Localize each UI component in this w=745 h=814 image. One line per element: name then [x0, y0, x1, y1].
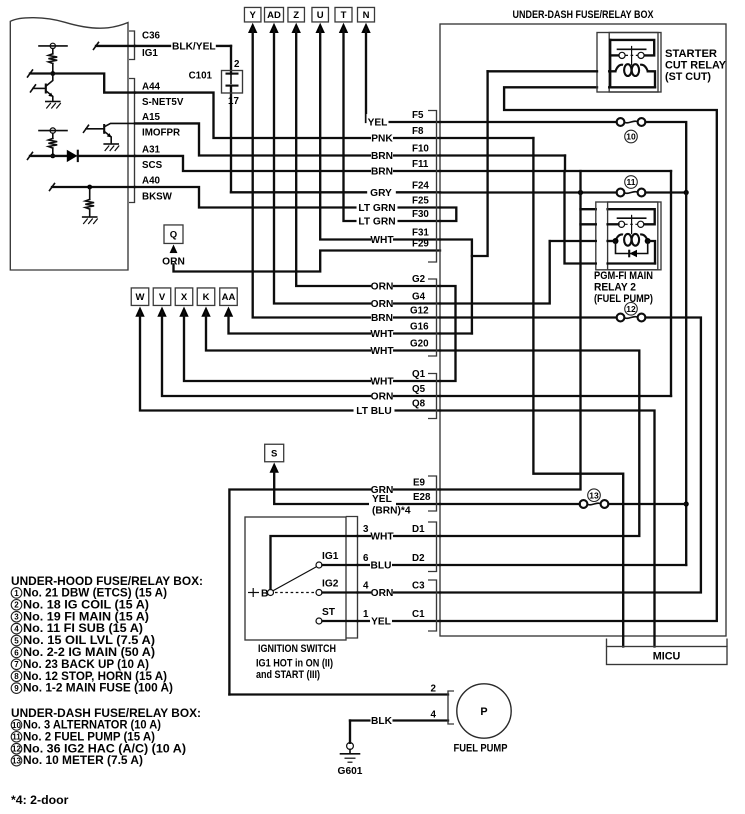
dashed line B-IG2 — [275, 592, 315, 594]
svg-text:IMOFPR: IMOFPR — [142, 128, 180, 139]
svg-text:ORN: ORN — [371, 392, 394, 403]
wire AD to ORN G4 row — [274, 29, 440, 304]
svg-text:4: 4 — [363, 581, 369, 592]
svg-text:BRN: BRN — [371, 313, 393, 324]
relay2 movable contact bar — [618, 217, 646, 219]
wire K to WHT G20 row — [206, 313, 440, 351]
svg-text:*4: 2-door: *4: 2-door — [11, 793, 69, 807]
wire F31 drop to G16 and ST-CUT coil branch — [440, 240, 472, 334]
svg-text:2: 2 — [14, 601, 19, 610]
terminal IG2 — [316, 590, 322, 596]
arrow into W — [135, 307, 144, 317]
wire Y to BRN G12 row — [253, 29, 440, 318]
wire V to ORN Q5 row — [162, 313, 440, 397]
fuel pump circle — [457, 684, 511, 738]
ignition switch connector bracket — [346, 517, 358, 639]
svg-text:E28: E28 — [413, 492, 431, 503]
wire G2 to G16/Q1 tie — [440, 286, 456, 381]
ST CUT coil-left wire out to F31 branch — [488, 70, 597, 72]
svg-text:12: 12 — [12, 745, 21, 754]
wire fuel pump pin 2 feed — [229, 693, 448, 695]
wire F10/F11 drop to relay2 area — [565, 171, 596, 264]
connector bracket G group — [428, 279, 437, 356]
legend item 9 — [11, 683, 22, 694]
svg-text:8: 8 — [14, 672, 19, 681]
connector box W — [131, 288, 149, 306]
legend item 7 — [11, 659, 22, 670]
legend item 6 — [11, 647, 22, 658]
node junction SCS net — [50, 154, 55, 159]
wire fuse 13 output to node — [609, 503, 687, 505]
svg-text:ORN: ORN — [162, 257, 185, 268]
svg-text:T: T — [341, 10, 347, 21]
svg-text:SCS: SCS — [142, 160, 163, 171]
svg-text:Q: Q — [170, 230, 177, 241]
ECM internal supply rail 2 — [39, 130, 67, 132]
wire G20 to Q5 tie and D1 drop — [440, 351, 639, 537]
wire D2 row inside box — [440, 564, 686, 566]
fuse 13 (No.10 METER) — [580, 500, 588, 508]
wire GRY F24 row — [231, 191, 366, 193]
svg-text:13: 13 — [12, 757, 21, 766]
svg-text:G601: G601 — [338, 766, 363, 777]
wire T to LT GRN F30 row — [344, 29, 441, 221]
wire C101 vertical to GRY row — [230, 46, 232, 74]
svg-text:G4: G4 — [412, 292, 426, 303]
svg-text:13: 13 — [589, 490, 599, 500]
svg-text:BKSW: BKSW — [142, 192, 173, 203]
wire F10 step to F11 row — [564, 156, 566, 172]
arrow into X — [179, 307, 188, 317]
relay2 coil left wire to staircase — [550, 240, 596, 242]
svg-text:F31: F31 — [412, 228, 429, 239]
svg-text:G2: G2 — [412, 274, 426, 285]
node dot GRY/relay feed — [578, 190, 583, 195]
svg-text:WHT: WHT — [370, 532, 394, 543]
svg-text:Q8: Q8 — [412, 399, 426, 410]
ST CUT movable contact bar — [618, 48, 646, 50]
resistor R-a (pull-up) — [52, 49, 54, 54]
wire F11 net drop to Q5 row — [670, 171, 672, 396]
wire S to YEL E28 row — [274, 469, 440, 504]
connector box K — [197, 288, 215, 306]
svg-text:ORN: ORN — [371, 588, 394, 599]
svg-text:No. 10 METER (7.5 A): No. 10 METER (7.5 A) — [23, 753, 143, 767]
ST CUT contact dashed actuator — [625, 54, 638, 56]
svg-text:(BRN)*4: (BRN)*4 — [372, 506, 411, 517]
wire fuel pump pin 4 / BLK ground wire — [350, 719, 448, 721]
fuse 11 (No.2 FUEL PUMP) — [617, 189, 625, 197]
svg-text:A44: A44 — [142, 82, 161, 93]
wire Q8 row to MICU — [440, 411, 655, 647]
svg-text:IGNITION SWITCH: IGNITION SWITCH — [258, 643, 336, 655]
svg-text:IG1: IG1 — [322, 551, 339, 562]
svg-text:7: 7 — [14, 660, 19, 669]
ECM connector bracket A-pins — [129, 79, 135, 203]
arrow into K — [201, 307, 210, 317]
wire BKSW row inside ECM — [52, 186, 135, 188]
svg-text:LT GRN: LT GRN — [358, 217, 395, 228]
relay2 diode loop — [616, 241, 648, 254]
node junction A44 net — [50, 71, 55, 76]
connector box U — [312, 7, 329, 22]
wire YEL C1 row (pin 1) — [358, 620, 441, 622]
connector box Z — [288, 7, 305, 22]
svg-text:2: 2 — [234, 59, 240, 70]
ST CUT contact-left stub — [610, 54, 618, 56]
arrow into T — [339, 23, 348, 33]
relay PGM-FI MAIN RELAY 2 inner box — [608, 202, 658, 270]
svg-text:S: S — [271, 448, 277, 459]
svg-text:11: 11 — [627, 177, 636, 187]
svg-text:IG1: IG1 — [142, 48, 158, 59]
wire relay2 contact feed — [581, 208, 596, 210]
svg-text:C3: C3 — [412, 581, 425, 592]
svg-text:GRN: GRN — [371, 485, 394, 496]
fuse 12 (No.36 IG2 HAC) — [617, 314, 625, 322]
resistor R-c (BKSW pulldown) — [89, 187, 91, 199]
legend item 12 — [11, 743, 22, 754]
svg-text:WHT: WHT — [370, 377, 394, 388]
wire B to battery feed (pin 3) — [271, 536, 358, 589]
wire PNK F8 row inside box — [440, 137, 533, 139]
terminal B — [248, 592, 259, 594]
svg-text:AD: AD — [267, 10, 281, 21]
svg-text:12: 12 — [626, 304, 636, 314]
legend item 5 — [11, 635, 22, 646]
svg-text:(FUEL PUMP): (FUEL PUMP) — [594, 293, 653, 305]
svg-text:BRN: BRN — [371, 167, 393, 178]
wire W to LT BLU Q8 row — [140, 313, 440, 411]
svg-text:X: X — [181, 292, 188, 303]
wire ORN F29 to Q — [174, 251, 441, 272]
svg-text:CUT RELAY: CUT RELAY — [665, 60, 727, 72]
legend item 13 — [11, 755, 22, 766]
wire SCS row inside ECM — [30, 155, 67, 157]
svg-text:PNK: PNK — [371, 134, 393, 145]
wire U to WHT F31 row — [320, 29, 440, 240]
wire BKSW to LT GRN F25 row — [135, 187, 440, 208]
wire G16 row stub — [440, 332, 472, 334]
fuse 10 (No.3 ALTERNATOR) — [617, 118, 625, 126]
svg-text:PGM-FI MAIN: PGM-FI MAIN — [594, 270, 653, 282]
svg-text:4: 4 — [14, 625, 19, 634]
wire BLU D2 row (pin 6) — [358, 564, 441, 566]
arrow into AA — [224, 307, 233, 317]
wire main vertical GRY node to E9 row — [440, 171, 581, 490]
ground (transistor Q-b emitter) — [104, 143, 118, 145]
connector bracket D group — [428, 522, 437, 572]
svg-text:UNDER-DASH FUSE/RELAY BOX: UNDER-DASH FUSE/RELAY BOX — [513, 9, 655, 21]
svg-text:C1: C1 — [412, 609, 425, 620]
svg-text:W: W — [136, 292, 145, 303]
legend item 2 — [11, 600, 22, 611]
svg-text:3: 3 — [363, 524, 369, 535]
relay2 coil right to bottom — [648, 241, 655, 264]
ECM internal supply rail 1 — [39, 45, 67, 47]
wire G12 row to fuse 12 — [440, 316, 617, 318]
svg-text:D1: D1 — [412, 524, 425, 535]
svg-text:6: 6 — [363, 553, 369, 564]
legend item 4 — [11, 623, 22, 634]
svg-text:Z: Z — [293, 10, 299, 21]
wire S-NET5V to PNK F8 row — [135, 93, 440, 138]
svg-text:WHT: WHT — [370, 235, 394, 246]
wire node to A44 pin — [30, 74, 135, 93]
node dot 13-row join — [684, 501, 689, 506]
svg-text:G20: G20 — [410, 339, 429, 350]
svg-text:4: 4 — [431, 710, 437, 721]
svg-text:ORN: ORN — [371, 282, 394, 293]
svg-text:1: 1 — [363, 609, 369, 620]
transistor Q-b (NPN, IMOFPR) — [103, 124, 105, 134]
connector bracket E group — [428, 476, 437, 511]
wire Q5 row inside box — [440, 395, 671, 397]
svg-text:2: 2 — [431, 684, 437, 695]
MICU box — [607, 647, 728, 665]
connector box T — [335, 7, 352, 22]
svg-text:STARTER: STARTER — [665, 48, 717, 60]
svg-text:10: 10 — [12, 721, 21, 730]
svg-text:G16: G16 — [410, 322, 429, 333]
wire AA to WHT G16 row — [229, 313, 441, 334]
svg-text:C101: C101 — [189, 71, 213, 82]
svg-text:3: 3 — [14, 613, 19, 622]
relay2 diode symbol — [630, 250, 638, 258]
svg-text:FUEL PUMP: FUEL PUMP — [454, 743, 508, 755]
ground G601 — [349, 721, 351, 743]
switch wiper B-IG1 — [273, 567, 316, 591]
svg-text:E9: E9 — [413, 478, 426, 489]
arrow into AD — [269, 23, 278, 33]
svg-text:G12: G12 — [410, 306, 429, 317]
ECM/PCM box outline (torn top edge) — [10, 18, 128, 270]
ground (BKSW resistor) — [83, 216, 97, 218]
wire ORN C3 row (pin 4) — [358, 591, 441, 593]
ECM internal node circle 1 — [50, 43, 55, 48]
svg-text:BRN: BRN — [371, 151, 393, 162]
connector box N — [358, 7, 375, 22]
svg-text:IG1 HOT in ON (II): IG1 HOT in ON (II) — [256, 658, 333, 670]
svg-text:BLK: BLK — [371, 716, 393, 727]
legend item 3 — [11, 611, 22, 622]
svg-text:BLK/YEL: BLK/YEL — [172, 42, 216, 53]
svg-text:5: 5 — [14, 636, 19, 645]
arrow into Z — [292, 23, 301, 33]
svg-text:K: K — [203, 292, 210, 303]
ST CUT coil-right to bottom — [648, 71, 655, 87]
svg-text:YEL: YEL — [368, 118, 388, 129]
legend item 11 — [11, 732, 22, 743]
relay2 coil terminal dots — [613, 238, 619, 244]
svg-text:17: 17 — [228, 96, 239, 107]
ST CUT left leg — [609, 40, 611, 87]
wire vertical node11 down to 13-row and D2 — [685, 193, 687, 566]
svg-text:U: U — [317, 10, 324, 21]
ECM internal node circle 2 — [50, 128, 55, 133]
wire IG1 BLK/YEL inside ECM — [96, 45, 135, 47]
arrow into U — [316, 23, 325, 33]
connector box AD — [265, 7, 284, 22]
svg-text:A40: A40 — [142, 176, 161, 187]
svg-text:No. 1-2 MAIN FUSE (100 A): No. 1-2 MAIN FUSE (100 A) — [23, 681, 173, 695]
svg-text:F30: F30 — [412, 209, 429, 220]
wire fuse 10 output down to node 11 — [646, 122, 687, 193]
label YEL (BRN)*4 — [369, 495, 396, 512]
wire BRN F11 row inside box — [440, 170, 671, 172]
wire E28 row to fuse 13 — [440, 503, 580, 505]
connector bracket Cgrp group — [428, 580, 437, 631]
resistor R-b — [52, 133, 54, 138]
svg-text:WHT: WHT — [370, 346, 394, 357]
svg-text:WHT: WHT — [370, 329, 394, 340]
wire F25 to F30 loop inside box — [440, 208, 456, 222]
wire BLK/YEL C36/IG1 to C101 — [135, 45, 170, 47]
wire BRN F10 row inside box — [440, 154, 565, 156]
svg-text:MICU: MICU — [653, 651, 681, 663]
under-dash fuse/relay box outline — [440, 24, 726, 636]
svg-text:F24: F24 — [412, 180, 429, 191]
terminal ST — [316, 618, 322, 624]
arrow into V — [157, 307, 166, 317]
ignition switch box — [245, 517, 346, 640]
svg-text:F29: F29 — [412, 239, 429, 250]
relay2 coil — [615, 234, 647, 241]
svg-text:Q1: Q1 — [412, 369, 426, 380]
diode D-a — [67, 150, 78, 162]
svg-text:(ST CUT): (ST CUT) — [665, 71, 711, 83]
svg-text:C36: C36 — [142, 31, 161, 42]
svg-text:11: 11 — [12, 733, 21, 742]
svg-text:6: 6 — [14, 648, 19, 657]
svg-text:F8: F8 — [412, 126, 424, 137]
wire coil staircase down to G4 row — [440, 241, 550, 304]
svg-text:F5: F5 — [412, 110, 424, 121]
wire Z to ORN G2 row — [296, 29, 440, 286]
svg-text:RELAY 2: RELAY 2 — [594, 282, 636, 294]
fuel pump connector bracket — [448, 691, 454, 724]
wire IMOFPR to BRN F10 row — [135, 123, 440, 155]
legend item 8 — [11, 671, 22, 682]
svg-text:V: V — [159, 292, 166, 303]
svg-text:F11: F11 — [412, 159, 429, 170]
ST CUT contact circles — [619, 52, 625, 58]
relay2 bottom leg — [608, 262, 655, 264]
wire N to YEL F5 row — [366, 29, 440, 122]
arrow into Y — [248, 23, 257, 33]
relay STARTER CUT inner box — [609, 33, 658, 93]
svg-text:1: 1 — [14, 589, 19, 598]
connector box S — [265, 444, 284, 462]
legend item 1 — [11, 588, 22, 599]
svg-text:Y: Y — [250, 10, 257, 21]
wire C1 row to ST CUT relay — [440, 87, 717, 621]
legend item 10 — [11, 720, 22, 731]
arrow into Q — [169, 245, 178, 255]
connector box Q — [164, 225, 183, 244]
svg-text:S-NET5V: S-NET5V — [142, 97, 184, 108]
ST CUT top terminal run — [610, 40, 654, 56]
ECM connector bracket C36/IG1 — [129, 31, 135, 60]
arrow into S — [270, 463, 279, 473]
svg-text:D2: D2 — [412, 553, 425, 564]
connector bracket F group — [428, 111, 437, 263]
wire fuse 12 output to C3 row — [440, 318, 701, 593]
node junction BKSW net — [87, 185, 92, 190]
terminal IG1 — [316, 562, 322, 568]
svg-text:ORN: ORN — [371, 299, 394, 310]
wire F5 row to fuse 10 — [440, 121, 617, 123]
wire X to WHT Q1 row — [184, 313, 440, 382]
relay2 contact circles — [618, 221, 624, 227]
svg-text:YEL: YEL — [371, 617, 391, 628]
svg-text:10: 10 — [626, 132, 636, 142]
svg-text:A31: A31 — [142, 145, 161, 156]
wire PNK/F8 net to MICU — [533, 138, 623, 647]
svg-text:A15: A15 — [142, 112, 161, 123]
connector box V — [153, 288, 171, 306]
ground (transistor Q-a emitter) — [46, 101, 60, 103]
node dot fuse10/fuse11 join — [684, 190, 689, 195]
arrow into N — [361, 23, 370, 33]
svg-text:9: 9 — [14, 684, 19, 693]
svg-text:IG2: IG2 — [322, 579, 339, 590]
connector box X — [175, 288, 193, 306]
svg-text:LT GRN: LT GRN — [358, 203, 395, 214]
svg-text:LT BLU: LT BLU — [356, 406, 391, 417]
relay PGM-FI MAIN RELAY 2 outer box — [596, 202, 661, 270]
connector box AA — [220, 288, 238, 306]
wire SCS to BRN F11 row — [135, 156, 440, 171]
svg-text:P: P — [480, 706, 487, 718]
transistor Q-a (NPN) — [45, 84, 47, 94]
svg-text:F25: F25 — [412, 196, 429, 207]
relay2 contact-left wire to main vertical — [581, 223, 596, 225]
relay STARTER CUT outer box — [597, 33, 661, 93]
wire WHT D1 row (pin 3) — [358, 535, 441, 537]
svg-text:BLU: BLU — [371, 561, 392, 572]
svg-text:ST: ST — [322, 607, 336, 618]
connector C101 symbol — [222, 71, 243, 94]
svg-text:N: N — [363, 10, 370, 21]
relay2 contact dashed actuator — [625, 223, 638, 225]
ST CUT bottom line — [609, 86, 655, 88]
svg-text:F10: F10 — [412, 144, 429, 155]
svg-text:GRY: GRY — [370, 188, 392, 199]
svg-text:AA: AA — [222, 292, 236, 303]
wire GRN E9 row to fuel pump feed — [229, 490, 440, 695]
svg-text:and START (III): and START (III) — [256, 669, 320, 681]
wire fuse 11 output — [646, 191, 687, 193]
ST CUT coil — [615, 65, 647, 72]
connector box Y — [244, 7, 261, 22]
svg-text:Q5: Q5 — [412, 384, 426, 395]
connector bracket Q group — [428, 374, 437, 419]
wire GRY row to fuse 11 — [440, 191, 617, 193]
